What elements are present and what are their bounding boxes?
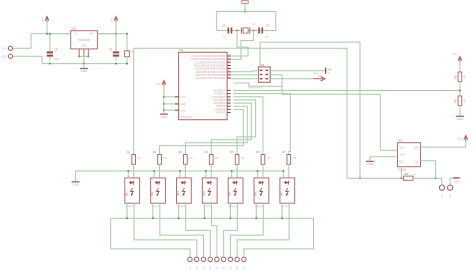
svg-text:GND: GND bbox=[81, 44, 87, 47]
svg-text:OK3: OK3 bbox=[178, 191, 180, 196]
svg-text:78L05SMD: 78L05SMD bbox=[78, 39, 91, 42]
svg-text:R10: R10 bbox=[404, 173, 409, 176]
svg-text:VCC: VCC bbox=[155, 83, 160, 86]
svg-text:MOSI/PCINT25: MOSI/PCINT25 bbox=[248, 88, 263, 90]
svg-text:VCC: VCC bbox=[400, 148, 405, 150]
svg-text:GND: GND bbox=[161, 115, 169, 119]
svg-text:IC3: IC3 bbox=[72, 27, 77, 31]
svg-text:+5V: +5V bbox=[110, 17, 114, 22]
svg-text:OK5: OK5 bbox=[230, 191, 232, 196]
svg-text:C5: C5 bbox=[109, 48, 113, 52]
svg-text:MISO: MISO bbox=[313, 73, 319, 75]
svg-text:TINY2313: TINY2313 bbox=[181, 115, 193, 119]
svg-text:IC2: IC2 bbox=[398, 139, 403, 143]
svg-text:DS1820: DS1820 bbox=[398, 169, 407, 172]
svg-text:VCC: VCC bbox=[457, 138, 462, 141]
svg-text:OK6: OK6 bbox=[256, 191, 258, 196]
svg-text:GND: GND bbox=[180, 110, 186, 113]
svg-text:X3-1: X3-1 bbox=[442, 193, 444, 198]
svg-text:NC: NC bbox=[415, 162, 419, 164]
svg-text:RST: RST bbox=[318, 76, 323, 78]
svg-text:X3-2: X3-2 bbox=[450, 193, 452, 198]
svg-text:X2-1: X2-1 bbox=[2, 47, 8, 51]
svg-text:GND: GND bbox=[72, 182, 80, 186]
svg-text:C4: C4 bbox=[54, 48, 58, 52]
svg-text:X2-2: X2-2 bbox=[2, 55, 8, 59]
svg-text:100n: 100n bbox=[54, 58, 60, 61]
svg-text:(ADC2/PCINT7/SCL)PB7: (ADC2/PCINT7/SCL)PB7 bbox=[196, 76, 226, 80]
svg-text:OK1: OK1 bbox=[126, 191, 128, 196]
svg-text:VCC: VCC bbox=[452, 53, 457, 56]
svg-text:+9V: +9V bbox=[41, 17, 45, 22]
svg-text:GND: GND bbox=[180, 103, 186, 106]
svg-text:GND: GND bbox=[81, 69, 89, 73]
svg-text:GND: GND bbox=[400, 155, 405, 157]
svg-text:C6: C6 bbox=[131, 50, 135, 54]
svg-text:GND: GND bbox=[454, 179, 460, 183]
svg-text:VCC: VCC bbox=[180, 96, 185, 99]
svg-text:OK2: OK2 bbox=[152, 191, 154, 196]
svg-text:VO: VO bbox=[90, 33, 94, 36]
svg-text:GND: GND bbox=[367, 162, 375, 166]
svg-text:GND: GND bbox=[457, 117, 465, 121]
svg-text:VDD: VDD bbox=[414, 148, 419, 150]
svg-text:(T0)PA2: (T0)PA2 bbox=[216, 112, 226, 115]
svg-text:VI: VI bbox=[75, 33, 78, 36]
svg-text:OK4: OK4 bbox=[204, 191, 206, 196]
svg-text:DQ: DQ bbox=[400, 162, 404, 164]
svg-text:OK7: OK7 bbox=[281, 191, 283, 196]
